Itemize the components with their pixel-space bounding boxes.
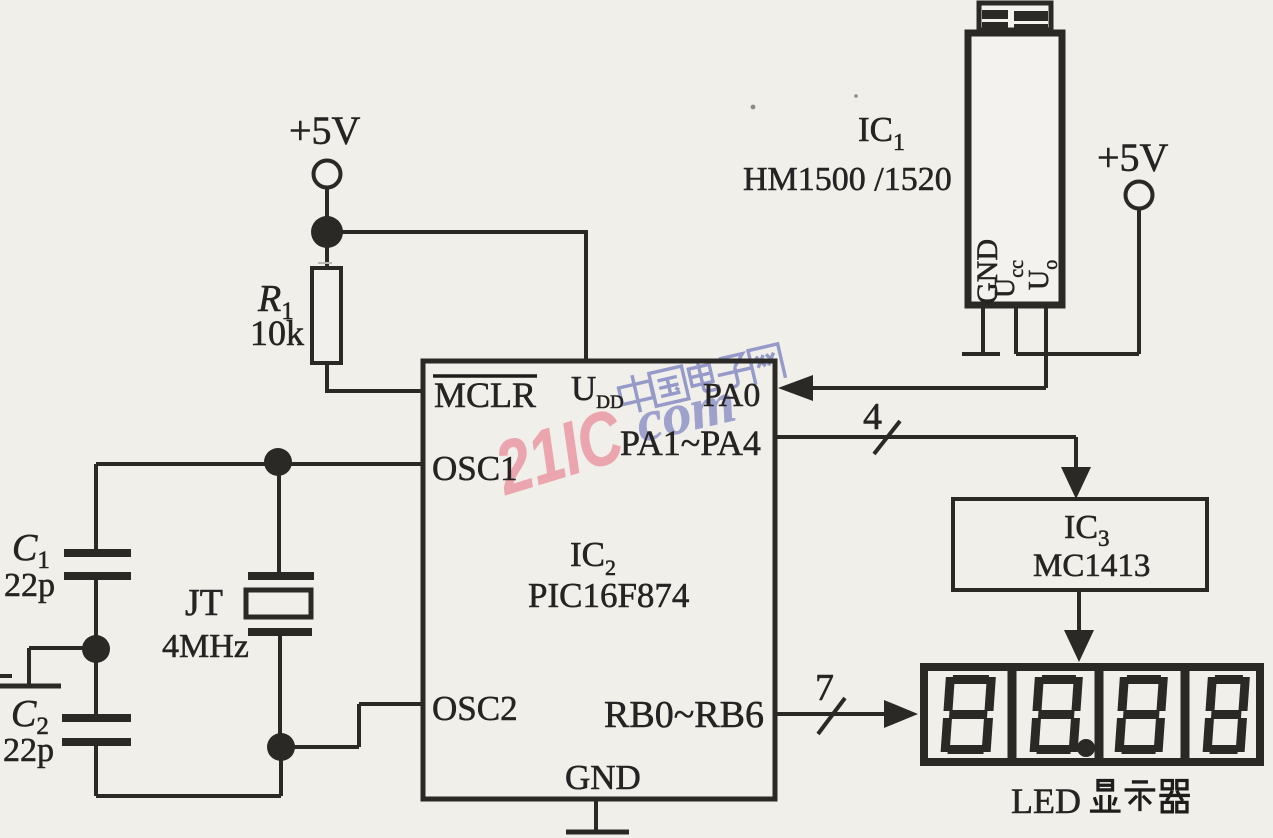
svg-text:4: 4 (863, 396, 882, 438)
svg-text:10k: 10k (250, 313, 304, 353)
svg-text:7: 7 (815, 667, 834, 709)
svg-text:OSC1: OSC1 (432, 449, 518, 488)
svg-text:4MHz: 4MHz (162, 628, 249, 665)
svg-text:MCLR: MCLR (434, 375, 536, 415)
svg-text:MC1413: MC1413 (1033, 548, 1150, 584)
svg-text:PA0: PA0 (703, 377, 760, 414)
svg-text:22p: 22p (3, 732, 54, 769)
svg-text:JT: JT (185, 582, 223, 624)
svg-text:PIC16F874: PIC16F874 (528, 576, 689, 615)
svg-text:OSC2: OSC2 (432, 689, 518, 728)
svg-text:LED: LED (1011, 781, 1081, 821)
svg-text:+5V: +5V (1097, 135, 1169, 180)
svg-text:PA1~PA4: PA1~PA4 (620, 423, 761, 463)
svg-text:HM1500 /1520: HM1500 /1520 (743, 161, 952, 198)
svg-text:22p: 22p (4, 567, 55, 604)
svg-text:GND: GND (565, 758, 641, 797)
svg-text:RB0~RB6: RB0~RB6 (604, 694, 764, 736)
svg-text:+5V: +5V (289, 108, 361, 153)
